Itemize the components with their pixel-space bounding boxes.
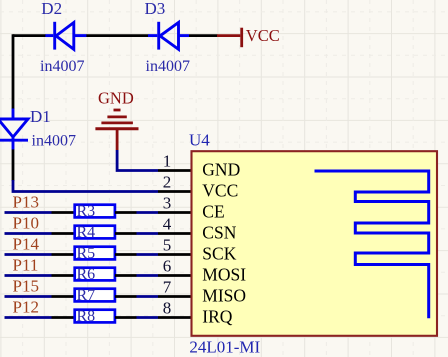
- svg-text:P12: P12: [13, 297, 39, 316]
- svg-text:R6: R6: [77, 266, 96, 283]
- svg-text:R4: R4: [77, 224, 96, 241]
- wire: elbow to pin 2 (VCC) of U4: [13, 180, 158, 192]
- antenna meander graphic: [315, 171, 429, 318]
- wire: R6 to pin 6: [115, 274, 137, 277]
- resistor R3: [75, 205, 115, 218]
- diode D2: [45, 22, 86, 50]
- svg-text:R3: R3: [77, 203, 96, 220]
- svg-text:5: 5: [163, 236, 172, 255]
- svg-text:CE: CE: [202, 202, 224, 222]
- wire: P10 to R4: [5, 232, 52, 235]
- pin 8 (IRQ): [158, 316, 191, 319]
- resistor R7: [75, 289, 115, 302]
- svg-text:D3: D3: [145, 0, 166, 18]
- svg-text:R8: R8: [77, 308, 96, 325]
- wire: R3 to pin 3: [115, 211, 137, 214]
- svg-text:P13: P13: [13, 192, 39, 211]
- svg-text:2: 2: [163, 173, 172, 192]
- svg-text:R5: R5: [77, 245, 96, 262]
- svg-text:P11: P11: [13, 255, 39, 274]
- wire: P15 to R7: [5, 295, 52, 298]
- svg-text:P15: P15: [13, 276, 39, 295]
- resistor R5: [75, 247, 115, 260]
- svg-text:3: 3: [163, 194, 172, 213]
- wire: R5 to pin 5: [115, 253, 137, 256]
- resistor R6: [75, 268, 115, 281]
- wire: R4 to pin 4: [115, 232, 137, 235]
- svg-text:VCC: VCC: [246, 26, 280, 45]
- IC U4 body (24L01-MI module): [192, 151, 438, 336]
- svg-text:in4007: in4007: [40, 58, 84, 75]
- svg-text:7: 7: [163, 278, 172, 297]
- svg-text:SCK: SCK: [202, 244, 236, 264]
- diode D3: [148, 22, 189, 50]
- svg-text:1: 1: [163, 152, 172, 171]
- svg-text:D1: D1: [30, 107, 51, 126]
- svg-text:6: 6: [163, 257, 172, 276]
- wire: R7 to pin 7: [115, 295, 137, 298]
- pin 5 (SCK): [158, 253, 191, 256]
- pin 7 (MISO): [158, 295, 191, 298]
- svg-text:IRQ: IRQ: [202, 307, 233, 327]
- power symbol VCC: [217, 28, 242, 48]
- pin 4 (CSN): [158, 232, 191, 235]
- wire: P11 to R6: [5, 274, 52, 277]
- svg-text:R7: R7: [77, 287, 96, 304]
- wire: GND symbol to pin 1 of U4: [117, 150, 158, 171]
- pin 2 (VCC): [158, 190, 191, 193]
- svg-text:MISO: MISO: [202, 286, 246, 306]
- svg-text:D2: D2: [41, 0, 62, 18]
- power symbol GND: [95, 110, 138, 150]
- wire: P14 to R5: [5, 253, 52, 256]
- wire: P13 to R3: [5, 211, 52, 214]
- diode D1: [0, 109, 28, 150]
- resistor R4: [75, 226, 115, 239]
- svg-text:U4: U4: [189, 131, 210, 150]
- pin 3 (CE): [158, 211, 191, 214]
- svg-text:in4007: in4007: [32, 133, 76, 150]
- svg-text:MOSI: MOSI: [202, 265, 246, 285]
- svg-text:P14: P14: [13, 234, 40, 253]
- svg-text:P10: P10: [13, 213, 39, 232]
- pin 6 (MOSI): [158, 274, 191, 277]
- svg-text:in4007: in4007: [146, 58, 190, 75]
- wire: VCC top rail: [13, 34, 218, 37]
- wire: left vertical from top rail to elbow: [12, 34, 15, 181]
- pin 1 (GND): [158, 169, 191, 172]
- wire: P12 to R8: [5, 316, 52, 319]
- svg-text:GND: GND: [202, 160, 240, 180]
- svg-text:8: 8: [163, 299, 172, 318]
- svg-text:CSN: CSN: [202, 223, 236, 243]
- svg-text:VCC: VCC: [202, 181, 238, 201]
- wire: R8 to pin 8: [115, 316, 137, 319]
- svg-text:4: 4: [163, 215, 172, 234]
- svg-text:24L01-MI: 24L01-MI: [189, 337, 260, 356]
- resistor R8: [75, 310, 115, 323]
- svg-text:GND: GND: [98, 88, 134, 107]
